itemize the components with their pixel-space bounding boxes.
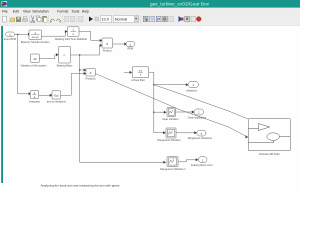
- fraction inside Bearing Transfer function: [32, 31, 39, 39]
- icon inside Discrete FIR Filter: amp triangle: [248, 124, 290, 143]
- left teal strip: [1, 26, 3, 183]
- svg-text:Analyzing the input rpm and me: Analyzing the input rpm and measuring th…: [41, 184, 120, 188]
- toolbar icon: print: [23, 19, 28, 22]
- arrowhead into Dangerous vibrations outport: [194, 131, 197, 134]
- block Dangerous Vibration 1: [167, 157, 178, 167]
- toolbar icon: redo: [57, 19, 61, 21]
- wire: Gear vibration to Gear separation oval: [176, 111, 193, 113]
- block Bearing Ratio: [59, 47, 71, 64]
- wire: diagonal bus junction through FIR interior: [154, 85, 290, 137]
- scope icon inside Dangerous Vibration 1: [168, 158, 176, 165]
- toolbar icon: new: [3, 16, 7, 22]
- wire: diagonal Product1 to FIR input: [95, 73, 246, 136]
- arrowhead into Dangerous Vibration 1 scope: [163, 161, 166, 164]
- toolbar icon: cut: [31, 16, 34, 22]
- block Gear vibration: [167, 108, 176, 117]
- svg-text:-K-: -K-: [63, 54, 67, 57]
- block Integrator: [30, 91, 38, 99]
- wire: Product out to RPM: [113, 43, 125, 45]
- toolbar icon: save: [16, 17, 21, 22]
- scope icon inside Gear vibration: [168, 109, 174, 115]
- wire: Input RPM to Bearing Transfer function: [15, 33, 28, 35]
- outport oval vibrations: [188, 82, 199, 88]
- svg-text:s+s+1: s+s+1: [32, 36, 39, 39]
- toolbar icon: paste: [43, 16, 47, 22]
- wire: Dangerous Vibration to its oval: [176, 132, 195, 134]
- wire: BHTS out to Product in1: [79, 32, 101, 41]
- toolbar icon: undo: [51, 19, 55, 21]
- wire: branch down to Integrator: [18, 34, 29, 94]
- wire: Bearing Transfer function to Bearing hold Time Stabilizer: [42, 32, 67, 37]
- svg-text:Normal: Normal: [115, 17, 128, 22]
- wire: bus to Dangerous Vibration: [154, 132, 163, 134]
- wire: Integrator to rpm-to-vibrations: [39, 94, 51, 96]
- arrowhead into Bearing Transfer function: [28, 33, 31, 36]
- toolbar icons: grayed pair: [64, 16, 69, 22]
- junction: Bearing Ratio out branch: [79, 54, 80, 55]
- svg-text:View: View: [23, 10, 31, 14]
- inport oval Input RPM: [6, 32, 15, 37]
- toolbar icon: browser: [179, 16, 183, 22]
- svg-text:Edit: Edit: [13, 10, 19, 14]
- arrowhead into Dangerous Vibration scope: [163, 131, 166, 134]
- svg-text:Tools: Tools: [71, 10, 79, 14]
- wire: rpm-to-vibrations up to Product1 in2: [61, 74, 85, 96]
- wire: long vertical bus to Dangerous Vibration 1: [80, 55, 164, 162]
- wire: bus to vibrations oval: [154, 84, 186, 86]
- block Discrete FIR Filter: [248, 119, 290, 151]
- title bar: [0, 0, 300, 8]
- arrowhead into Product in2: [100, 44, 103, 47]
- outport oval bearing factor error: [199, 157, 208, 163]
- wire: branch to Product1 in1: [80, 69, 85, 71]
- wire: Dangerous Vibration 1 to its oval: [178, 160, 196, 162]
- svg-text:Format: Format: [57, 10, 68, 14]
- svg-text:x: x: [106, 42, 108, 46]
- svg-text:gas_turbine_ex02/Gear Box: gas_turbine_ex02/Gear Box: [150, 2, 210, 7]
- outport oval Gear separation: [194, 109, 204, 115]
- svg-text:10.0: 10.0: [102, 17, 110, 22]
- block Product: [102, 38, 113, 48]
- svg-text:s-1: s-1: [139, 69, 143, 72]
- arrowhead into 1-Pass filter: [130, 71, 133, 74]
- fraction inside Integrator: [34, 91, 36, 99]
- toolbar icon: stop: [95, 17, 99, 21]
- wire: Vibration-of-the-system to Bearing Ratio: [40, 55, 58, 59]
- toolbar icon: copy: [36, 16, 39, 20]
- svg-text:Simulation: Simulation: [32, 10, 48, 14]
- arrowhead into vibrations outport: [186, 83, 189, 86]
- menu bar: [0, 8, 300, 14]
- arrowhead into Discrete FIR Filter input: [246, 136, 249, 139]
- arrowhead into Gear separation outport: [192, 111, 195, 114]
- wire: Bearing Ratio out to Product in2: [71, 45, 101, 55]
- arrowhead into Product1 in1: [84, 69, 87, 72]
- block Bearing Transfer function: [29, 30, 42, 40]
- arrowhead into RPM outport: [124, 43, 127, 46]
- block Bearing hold Time Stabilizer: [68, 27, 80, 37]
- svg-text:File: File: [2, 10, 8, 14]
- canvas background: [0, 26, 300, 192]
- outport oval RPM: [126, 41, 135, 46]
- fraction inside 1-Pass filter: [139, 69, 143, 76]
- toolbar icon: play: [89, 17, 93, 22]
- junction: Gear vibration branch: [153, 112, 154, 113]
- arrowhead into Product in1: [100, 39, 103, 42]
- wire: bus to Gear vibration: [154, 111, 164, 113]
- arrowhead into Integrator: [29, 92, 32, 95]
- toolbar icon: library: [143, 16, 148, 22]
- toolbar dropdown: Normal: [113, 16, 138, 23]
- scope icon inside Dangerous Vibration: [167, 129, 174, 136]
- block Product1: [86, 69, 95, 77]
- arrowhead into Gear vibration scope: [164, 111, 167, 114]
- block Dangerous Vibration: [166, 128, 176, 138]
- toolbar: [0, 14, 300, 26]
- arrowhead into Product1 in2: [84, 72, 87, 75]
- svg-text:12: 12: [33, 57, 37, 61]
- wire: stub into 1-Pass filter: [124, 72, 129, 74]
- toolbar icon: open: [10, 18, 15, 22]
- window icon: [2, 1, 8, 6]
- block 1-Pass filter: [132, 67, 148, 78]
- block Vibration of the system: [31, 54, 40, 62]
- block rpm to vibrations: [52, 91, 61, 99]
- arrowhead into rpm to vibrations: [50, 94, 53, 97]
- fraction inside Bearing hold Time Stabilizer: [72, 28, 74, 37]
- arrowhead into Bearing Ratio: [56, 53, 59, 56]
- junction: Input RPM branch: [17, 34, 18, 35]
- numbers inside port ovals: [9, 33, 204, 163]
- toolbar icon: debug: [196, 17, 201, 22]
- arrowhead into Bearing hold Time Stabilizer: [65, 30, 68, 33]
- outport oval Dangerous vibrations: [197, 130, 206, 136]
- junction: Product1 in1 branch: [79, 69, 80, 70]
- wire: 1-Pass filter out down the bus: [149, 72, 154, 133]
- svg-text:Help: Help: [82, 10, 89, 14]
- arrowhead into bearing factor error outport: [196, 158, 199, 161]
- toolbar field: sim time 10.0: [101, 16, 112, 23]
- junction: vibrations bus top: [153, 84, 154, 85]
